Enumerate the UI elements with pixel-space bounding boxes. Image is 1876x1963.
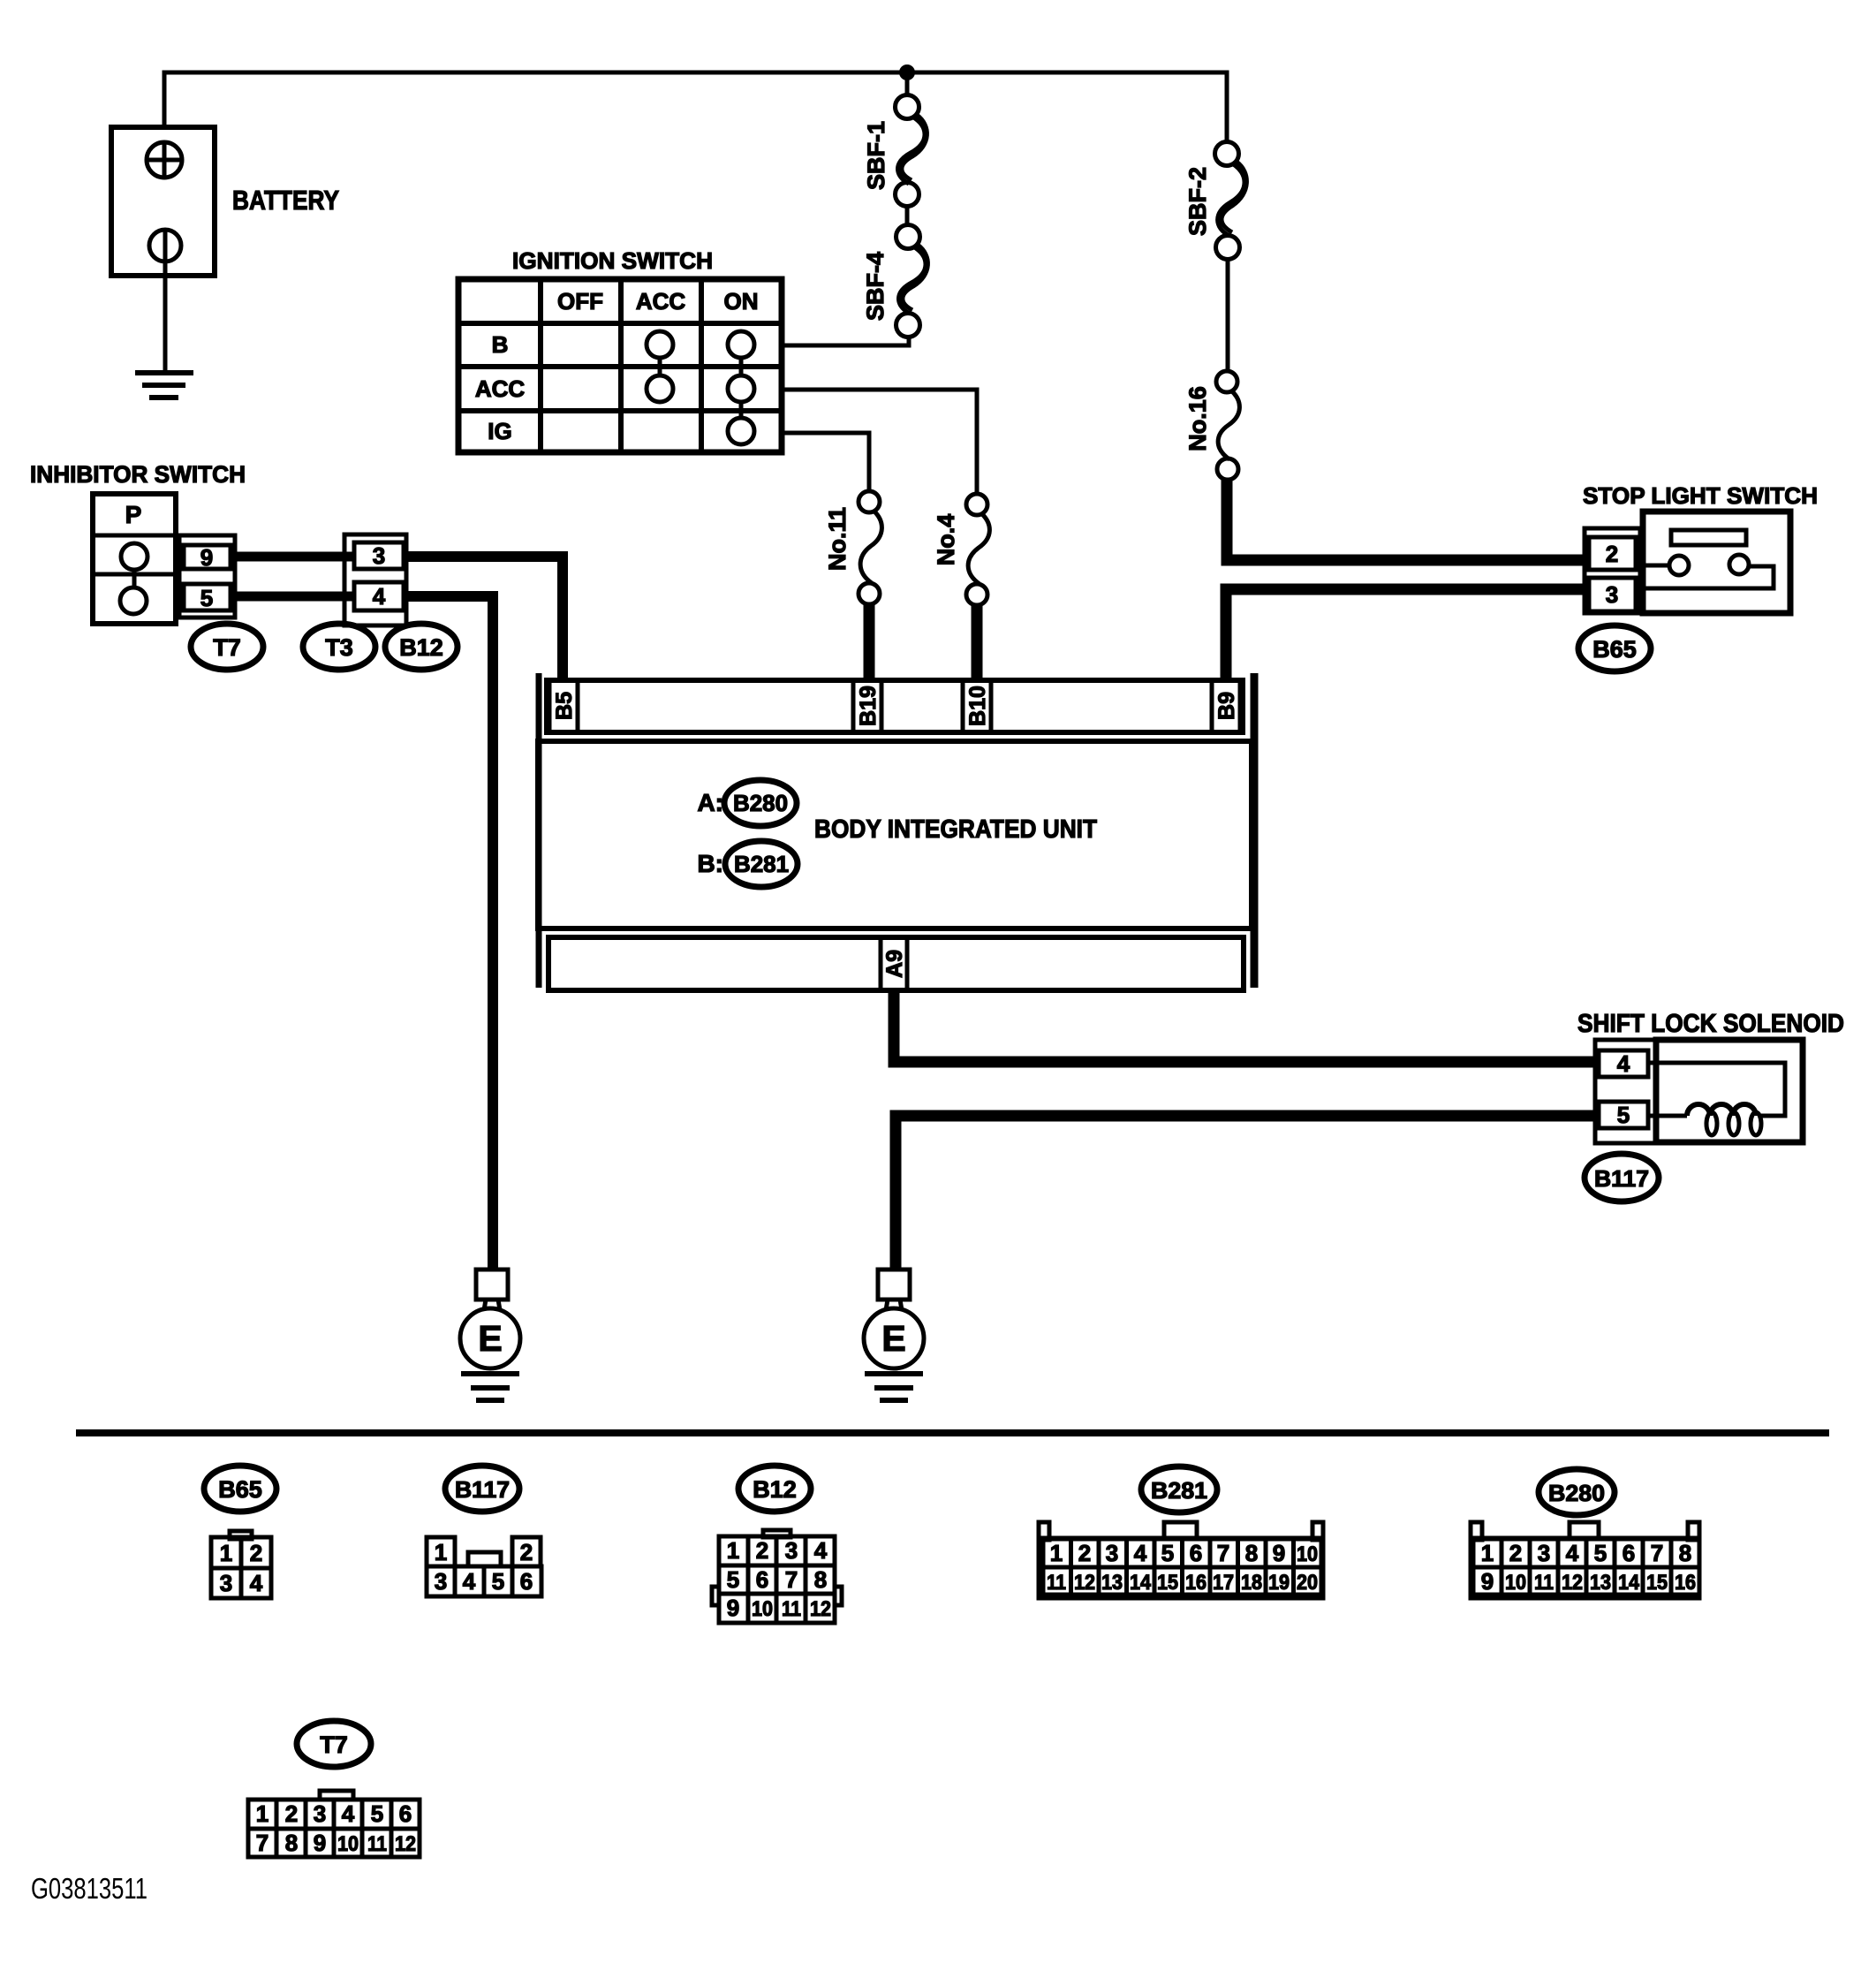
svg-text:2: 2 [520, 1539, 533, 1565]
svg-text:B281: B281 [1151, 1477, 1207, 1504]
wire: fuse No.4 to B10 [972, 603, 983, 682]
svg-text:6: 6 [399, 1800, 412, 1827]
connector label ellipse B117 at solenoid [1585, 1154, 1659, 1201]
body integrated unit bottom connector strip [548, 937, 1244, 990]
svg-text:4: 4 [463, 1568, 476, 1595]
svg-text:10: 10 [1297, 1542, 1318, 1566]
svg-text:INHIBITOR SWITCH: INHIBITOR SWITCH [30, 461, 246, 488]
svg-text:7: 7 [256, 1830, 269, 1856]
svg-text:13: 13 [1101, 1571, 1123, 1595]
svg-text:15: 15 [1157, 1571, 1178, 1595]
svg-text:T7: T7 [213, 634, 241, 661]
svg-text:B9: B9 [1214, 692, 1239, 720]
svg-text:OFF: OFF [557, 288, 603, 315]
wire: stop light switch pin 3 to B9 [1226, 589, 1585, 682]
svg-text:11: 11 [367, 1832, 387, 1856]
pin B19 [853, 680, 881, 732]
svg-text:IG: IG [488, 418, 511, 444]
connector label ellipse T3 [303, 624, 375, 670]
svg-text:4: 4 [342, 1800, 355, 1827]
wire: T3 pin 3 to B5 [404, 557, 563, 682]
connector label ellipse B281 inside unit [725, 841, 798, 887]
svg-text:B10: B10 [965, 686, 990, 726]
svg-text:3: 3 [1538, 1540, 1550, 1566]
wire: SBF-2 to fuse No.16 [1226, 260, 1230, 371]
ignition switch contacts: ACC column [647, 331, 673, 402]
separator line [76, 1429, 1829, 1436]
wire: fuse No.16 to stop light switch pin 2 [1227, 478, 1585, 560]
body integrated unit left rail [536, 673, 542, 988]
svg-text:A9: A9 [882, 950, 907, 978]
svg-text:ON: ON [724, 288, 759, 315]
svg-text:5: 5 [1161, 1540, 1174, 1566]
svg-text:4: 4 [1566, 1540, 1579, 1566]
svg-text:3: 3 [314, 1800, 326, 1827]
svg-text:SBF-1: SBF-1 [863, 121, 889, 190]
svg-text:14: 14 [1618, 1571, 1640, 1595]
svg-text:E: E [478, 1318, 502, 1359]
svg-text:2: 2 [250, 1540, 262, 1566]
svg-text:11: 11 [1534, 1571, 1554, 1595]
svg-text:E: E [881, 1318, 905, 1359]
connector label ellipse B280 inside unit [724, 780, 797, 826]
svg-text:20: 20 [1297, 1571, 1318, 1595]
wire: inhibitor pin 9 to T3 pin 3 [232, 552, 354, 562]
node: top bus junction above SBF-1 [899, 64, 915, 80]
stop light switch connector pins 2/3 [1585, 528, 1640, 613]
svg-text:3: 3 [373, 542, 385, 569]
connector label ellipse B12 (pinout section) [738, 1466, 811, 1512]
svg-text:B:: B: [697, 850, 723, 877]
svg-text:5: 5 [1594, 1540, 1607, 1566]
svg-text:B12: B12 [399, 634, 443, 661]
svg-text:10: 10 [1505, 1571, 1526, 1595]
svg-text:12: 12 [395, 1832, 416, 1856]
fuse No.16 [1216, 371, 1239, 480]
shift lock solenoid connector pins 4/5 [1595, 1040, 1656, 1143]
svg-text:4: 4 [814, 1537, 828, 1564]
wire: A9 to shift lock solenoid pin 4 [894, 990, 1596, 1062]
svg-text:No.11: No.11 [824, 507, 851, 571]
svg-text:B281: B281 [734, 851, 789, 877]
svg-text:8: 8 [1245, 1540, 1258, 1566]
svg-text:17: 17 [1213, 1571, 1234, 1595]
svg-text:12: 12 [1074, 1571, 1095, 1595]
connector B117 pinout [427, 1537, 541, 1596]
svg-text:5: 5 [492, 1568, 504, 1595]
svg-text:4: 4 [1617, 1050, 1630, 1077]
solenoid internal wiring [1648, 1063, 1785, 1116]
svg-text:SHIFT LOCK SOLENOID: SHIFT LOCK SOLENOID [1577, 1010, 1844, 1038]
solenoid coil L [1687, 1104, 1761, 1135]
ignition switch contacts: ON column [728, 331, 754, 444]
battery [111, 127, 215, 276]
svg-text:6: 6 [1623, 1540, 1635, 1566]
pin A9 [881, 937, 907, 990]
svg-text:16: 16 [1185, 1571, 1207, 1595]
svg-text:8: 8 [814, 1566, 827, 1593]
pin B9 [1212, 680, 1240, 732]
svg-text:9: 9 [314, 1830, 326, 1856]
svg-text:8: 8 [285, 1830, 298, 1856]
svg-text:1: 1 [727, 1537, 739, 1564]
svg-text:10: 10 [337, 1832, 359, 1856]
svg-text:1: 1 [435, 1539, 447, 1565]
svg-text:IGNITION SWITCH: IGNITION SWITCH [512, 247, 713, 274]
svg-text:9: 9 [200, 544, 213, 571]
svg-text:12: 12 [810, 1597, 831, 1621]
svg-text:5: 5 [371, 1800, 383, 1827]
svg-text:B19: B19 [856, 686, 881, 726]
connector label ellipse B12 [385, 624, 458, 670]
svg-text:B280: B280 [1548, 1480, 1605, 1506]
svg-text:SBF-4: SBF-4 [862, 252, 889, 321]
pin B10 [963, 680, 991, 732]
svg-text:1: 1 [1050, 1540, 1063, 1566]
svg-text:SBF-2: SBF-2 [1184, 167, 1211, 236]
svg-text:12: 12 [1562, 1571, 1583, 1595]
fuse SBF-1 [896, 95, 927, 207]
svg-text:7: 7 [785, 1566, 798, 1593]
svg-text:1: 1 [220, 1540, 232, 1566]
wire: fuse No.11 to B19 [864, 603, 875, 682]
wire: T3 pin 4 down to ground E [404, 596, 493, 1270]
svg-text:9: 9 [1481, 1568, 1494, 1595]
svg-text:No.16: No.16 [1184, 386, 1211, 451]
svg-text:7: 7 [1217, 1540, 1229, 1566]
svg-text:9: 9 [1273, 1540, 1285, 1566]
svg-text:3: 3 [435, 1568, 447, 1595]
svg-text:B117: B117 [455, 1476, 510, 1503]
wire: battery positive feed to top bus and down to SBF-2 [164, 72, 1227, 142]
svg-text:5: 5 [1617, 1102, 1630, 1128]
svg-text:13: 13 [1590, 1571, 1611, 1595]
svg-text:19: 19 [1268, 1571, 1290, 1595]
connector T7 pins 9/5 at inhibitor switch [179, 535, 235, 618]
connector label ellipse B117 (pinout section) [445, 1466, 519, 1512]
connector B281 pinout [1039, 1522, 1323, 1598]
svg-text:T3: T3 [325, 634, 353, 661]
svg-text:BODY INTEGRATED UNIT: BODY INTEGRATED UNIT [814, 815, 1097, 844]
svg-text:7: 7 [1651, 1540, 1663, 1566]
svg-text:3: 3 [220, 1570, 232, 1596]
connector label ellipse B65 (pinout section) [204, 1466, 276, 1512]
connector label ellipse B280 (pinout section) [1539, 1469, 1615, 1515]
connector label ellipse T7 (pinout section) [297, 1721, 371, 1767]
body integrated unit main box [538, 741, 1252, 928]
svg-text:14: 14 [1130, 1571, 1152, 1595]
fuse No.4 [966, 494, 989, 605]
svg-text:4: 4 [1134, 1540, 1147, 1566]
svg-text:4: 4 [373, 583, 386, 610]
svg-text:B: B [492, 331, 509, 358]
connector B12 pinout [712, 1530, 842, 1623]
connector T3 pins 3/4 [344, 534, 406, 625]
connector label ellipse T7 [191, 624, 263, 670]
svg-text:B117: B117 [1594, 1165, 1649, 1192]
svg-text:15: 15 [1646, 1571, 1668, 1595]
inhibitor switch [93, 494, 176, 624]
wire: battery negative to ground [163, 230, 168, 373]
svg-text:ACC: ACC [475, 375, 526, 402]
svg-text:B65: B65 [218, 1476, 262, 1503]
shift lock solenoid body [1656, 1040, 1803, 1142]
svg-text:6: 6 [756, 1566, 768, 1593]
svg-text:2: 2 [285, 1800, 298, 1827]
fuse No.11 [859, 491, 881, 604]
svg-text:1: 1 [256, 1800, 269, 1827]
svg-text:A:: A: [697, 789, 723, 816]
svg-text:6: 6 [1190, 1540, 1202, 1566]
wire: ignition B terminal to SBF-4 [782, 337, 909, 345]
wire: ignition IG terminal to fuse No.11 [782, 433, 869, 492]
connector T7 pinout [248, 1791, 420, 1857]
svg-text:2: 2 [1509, 1540, 1522, 1566]
svg-text:3: 3 [1606, 581, 1618, 608]
ground E (right, from solenoid pin 5) [864, 1270, 924, 1400]
connector label ellipse B65 at stop light switch [1578, 625, 1651, 671]
connector B65 pinout [211, 1531, 271, 1598]
svg-text:2: 2 [756, 1537, 768, 1564]
svg-text:T7: T7 [320, 1732, 348, 1758]
svg-text:3: 3 [785, 1537, 798, 1564]
svg-text:P: P [125, 501, 142, 528]
svg-text:5: 5 [200, 585, 213, 611]
svg-text:18: 18 [1241, 1571, 1262, 1595]
svg-text:2: 2 [1606, 541, 1618, 567]
svg-text:ACC: ACC [636, 288, 686, 315]
wire: inhibitor pin 5 to T3 pin 4 [232, 592, 354, 602]
svg-text:5: 5 [727, 1566, 739, 1593]
svg-text:11: 11 [782, 1597, 801, 1621]
svg-text:16: 16 [1675, 1571, 1696, 1595]
svg-text:B5: B5 [552, 692, 577, 720]
svg-text:9: 9 [727, 1595, 739, 1621]
svg-text:1: 1 [1481, 1540, 1494, 1566]
fuse SBF-2 [1215, 142, 1247, 260]
svg-text:B280: B280 [733, 790, 788, 816]
fuse SBF-4 [896, 225, 928, 337]
stop light switch body [1636, 512, 1790, 613]
svg-text:B65: B65 [1592, 636, 1637, 663]
svg-text:BATTERY: BATTERY [232, 185, 339, 216]
connector B280 pinout [1471, 1522, 1699, 1598]
svg-text:STOP LIGHT SWITCH: STOP LIGHT SWITCH [1583, 482, 1818, 509]
svg-text:B12: B12 [753, 1476, 797, 1503]
body integrated unit right rail [1251, 673, 1259, 988]
wire: SBF-1 to SBF-4 [905, 207, 910, 225]
svg-text:8: 8 [1679, 1540, 1691, 1566]
ignition switch table [458, 279, 782, 452]
connector label ellipse B281 (pinout section) [1141, 1467, 1217, 1512]
svg-text:3: 3 [1106, 1540, 1118, 1566]
wire: junction down to SBF-1 [905, 72, 910, 95]
svg-text:11: 11 [1047, 1571, 1066, 1595]
svg-text:4: 4 [250, 1570, 263, 1596]
svg-text:No.4: No.4 [933, 514, 959, 566]
svg-text:G03813511: G03813511 [31, 1872, 148, 1905]
svg-text:2: 2 [1078, 1540, 1091, 1566]
pin B5 [549, 680, 578, 732]
ground: battery ground symbol [135, 373, 193, 398]
wire: shift lock solenoid pin 5 to ground E [896, 1116, 1596, 1270]
ground E (left, from T3 pin 4) [460, 1270, 520, 1400]
wire: ignition ACC terminal to fuse No.4 [782, 390, 977, 495]
svg-text:10: 10 [752, 1597, 773, 1621]
body integrated unit top connector strip [547, 680, 1243, 732]
svg-text:6: 6 [520, 1568, 533, 1595]
